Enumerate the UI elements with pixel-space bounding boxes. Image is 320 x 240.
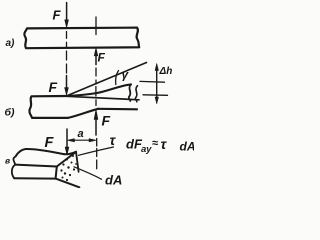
- bar a outline: [24, 28, 139, 49]
- force F arrow (fig a, up from below): [95, 56, 97, 65]
- bar b left part: top edge, left wavy edge, bottom edge: [29, 96, 68, 118]
- svg-text:в: в: [5, 156, 10, 166]
- svg-text:ау: ау: [141, 144, 152, 155]
- box cut-face bottom edge: [56, 179, 80, 188]
- svg-text:F: F: [98, 51, 106, 65]
- dimension a line with arrows: [72, 139, 91, 141]
- label tau: [110, 132, 117, 148]
- delta-h lower tick: [143, 94, 168, 97]
- section dashes between a and b (x=96): [95, 68, 97, 106]
- label b): [5, 107, 16, 119]
- right part bottom edge: [98, 108, 137, 111]
- box front-bottom edge: [14, 177, 55, 179]
- shear slant line (gamma): [66, 63, 146, 97]
- svg-text:F: F: [49, 79, 58, 95]
- force F arrow (fig b, down): [66, 76, 68, 89]
- sheared element top face + right part top edge: [66, 84, 131, 96]
- sheared element bottom face: [68, 109, 98, 118]
- box cut-face right edge: [76, 152, 79, 172]
- box left wavy break edge: [12, 157, 16, 179]
- svg-text:dA: dA: [180, 140, 195, 154]
- formula dF_sd = tau dA: [126, 136, 196, 155]
- label delta-h: [159, 66, 173, 77]
- tau callout line: [79, 147, 114, 155]
- svg-text:Δh: Δh: [159, 66, 173, 77]
- box front-top edge: [15, 165, 57, 167]
- box front-right edge: [56, 167, 57, 179]
- dA callout line: [74, 167, 102, 180]
- gamma angle arc: [116, 71, 119, 85]
- label F (fig a bottom): [98, 51, 106, 65]
- svg-text:≈: ≈: [152, 138, 158, 150]
- svg-text:б): б): [5, 107, 16, 119]
- label a): [6, 38, 16, 49]
- break wave 1 (fig b right end): [129, 84, 131, 101]
- section dashes below fig b (x=96.7): [96, 139, 98, 169]
- svg-text:a: a: [78, 128, 84, 140]
- force F arrow (fig b, up from below): [95, 120, 97, 135]
- label gamma: [122, 68, 130, 82]
- box back-top edge: [16, 149, 77, 157]
- original top edge reference line: [67, 96, 140, 100]
- label F (fig b bottom): [102, 113, 111, 129]
- label dA: [105, 173, 122, 188]
- label v): [5, 156, 10, 166]
- break wave 2 (fig b right end): [135, 86, 137, 102]
- force F arrow (fig v, down onto box): [66, 129, 68, 148]
- label F (fig v): [45, 135, 55, 151]
- dots on cut face (dA area): [60, 155, 77, 181]
- label F (fig b left): [49, 79, 58, 95]
- svg-text:F: F: [53, 8, 62, 23]
- label F (fig a top): [53, 8, 62, 23]
- svg-text:F: F: [102, 113, 111, 129]
- delta-h dimension line with arrows: [156, 69, 158, 98]
- svg-text:а): а): [6, 38, 16, 49]
- delta-h upper tick: [140, 80, 165, 83]
- section line I dashes (x=66.5): [66, 32, 68, 74]
- section line II tick above bar: [95, 17, 97, 35]
- svg-text:dA: dA: [105, 173, 122, 188]
- force F arrow (fig a, down): [66, 3, 68, 22]
- svg-text:F: F: [45, 135, 55, 151]
- label a (dimension): [78, 128, 84, 140]
- box cut-face top slant edge: [57, 152, 76, 167]
